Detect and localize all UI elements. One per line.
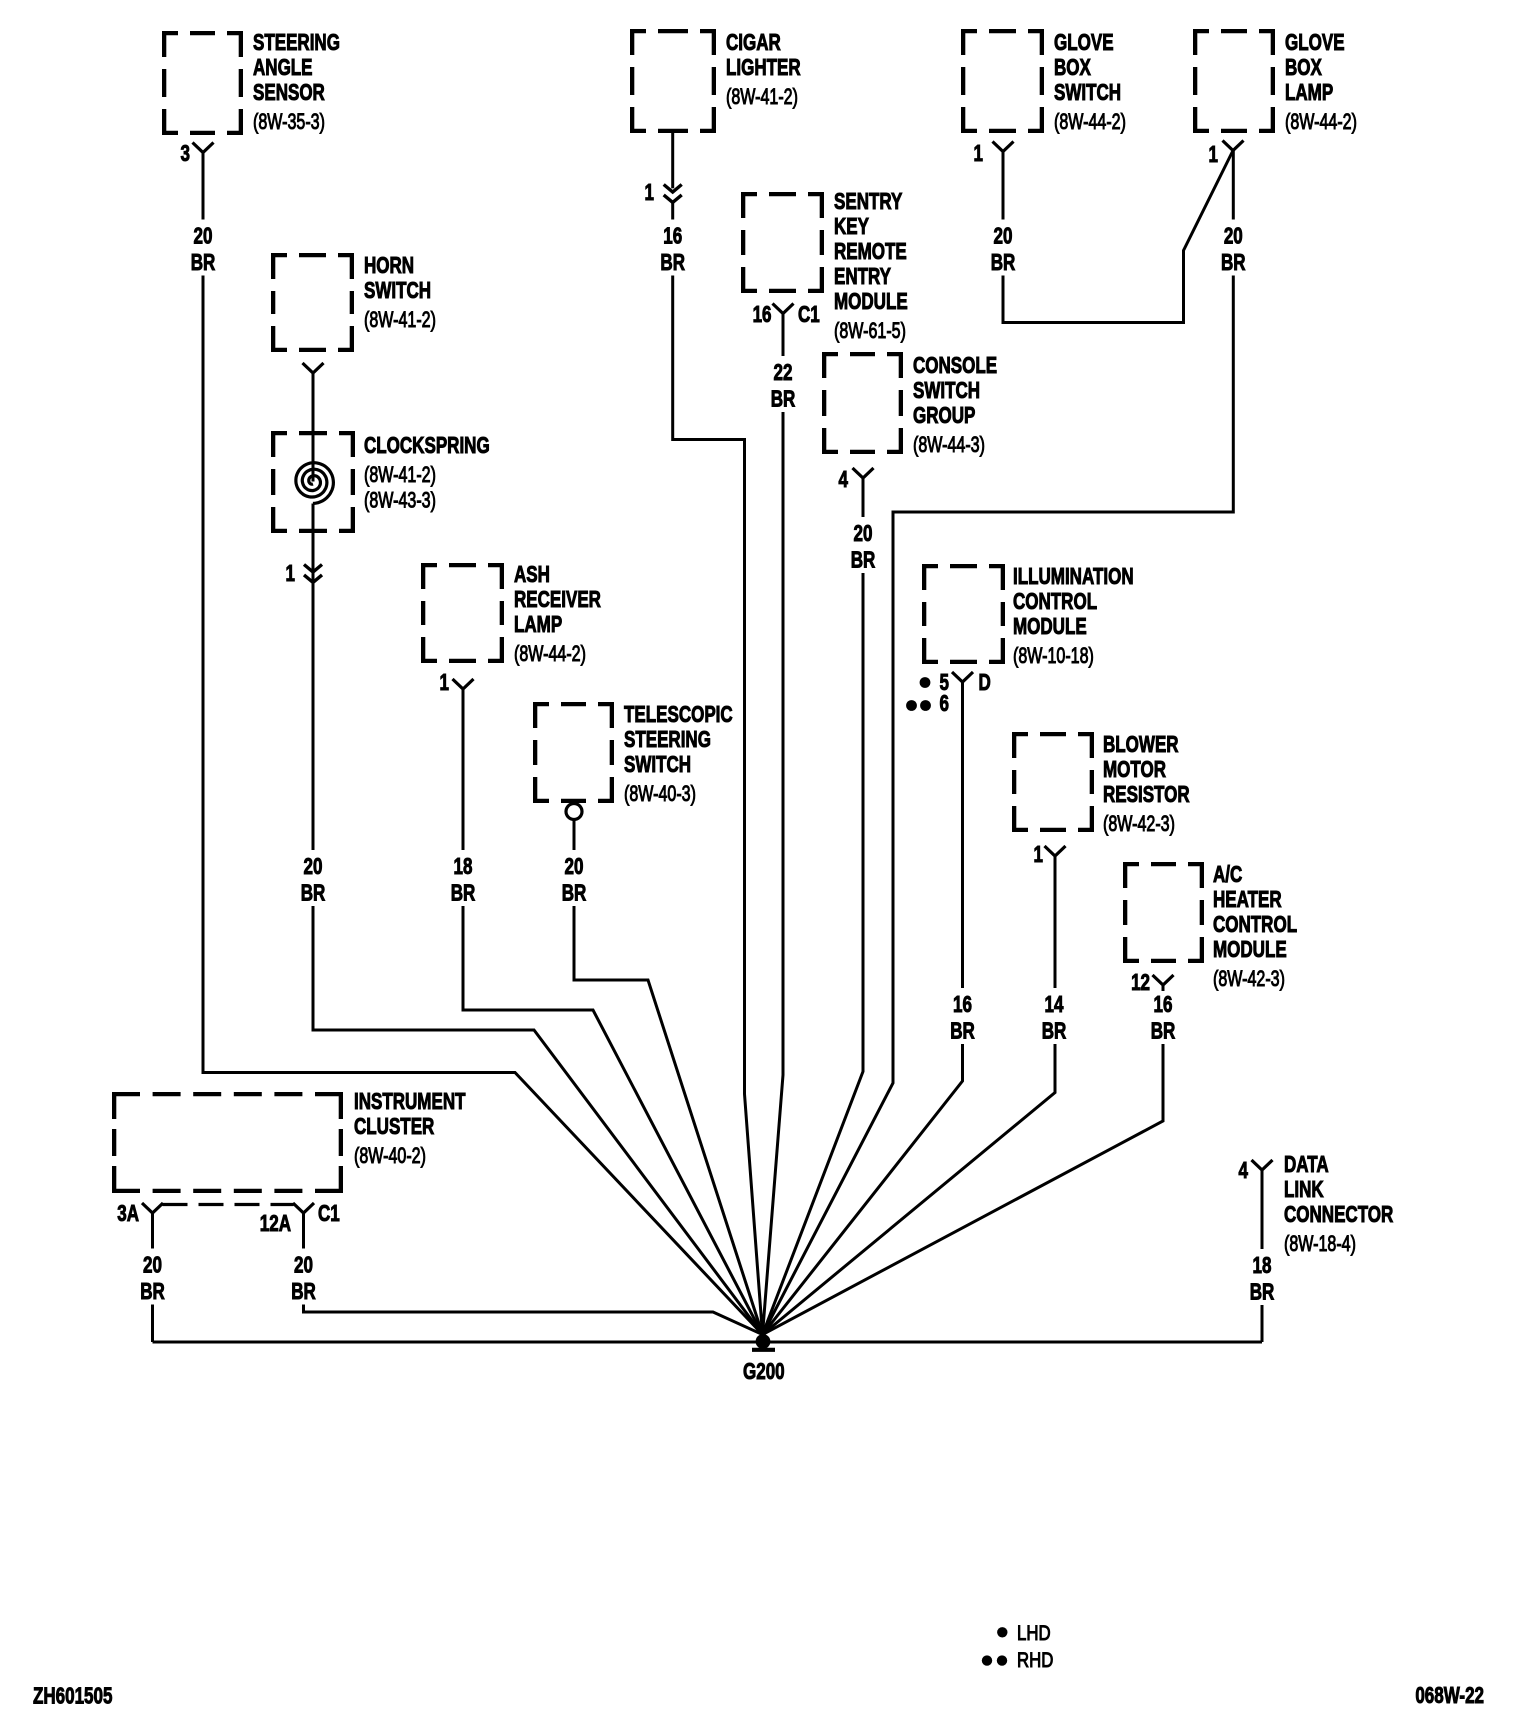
svg-text:16: 16 [753,303,772,328]
wire: telescopic steering switch to G200 splice [574,820,763,1335]
svg-text:ANGLE: ANGLE [253,55,313,80]
svg-text:BR: BR [1042,1019,1067,1044]
sheet number ZH601505 [33,1684,112,1709]
ground G200 splice dot and symbol [752,1334,775,1350]
svg-text:A/C: A/C [1213,862,1243,887]
label 20 BR (console switch group wire) [845,517,881,573]
svg-text:(8W-61-5): (8W-61-5) [834,320,906,344]
svg-text:CLOCKSPRING: CLOCKSPRING [364,433,490,458]
pin 1 connector (glove box switch) [974,142,1014,167]
label: DATA LINK CONNECTOR [1284,1152,1394,1256]
svg-text:LHD: LHD [1017,1622,1051,1645]
label 18 BR (data link connector wire) [1244,1249,1280,1305]
wire: horn switch to clockspring (upper) [312,373,315,482]
wire: ash receiver lamp pin 1 to G200 splice [463,689,763,1335]
connector box: GLOVE BOX LAMP [1193,29,1357,135]
svg-text:(8W-41-2): (8W-41-2) [364,464,436,488]
svg-text:16: 16 [1154,993,1173,1018]
svg-text:3A: 3A [117,1202,139,1227]
svg-text:4: 4 [839,468,849,493]
svg-text:RECEIVER: RECEIVER [514,587,601,612]
svg-text:LINK: LINK [1284,1177,1324,1202]
svg-text:22: 22 [774,361,793,386]
svg-text:BOX: BOX [1285,55,1322,80]
wire: console switch group pin 4 to G200 splice [763,478,864,1335]
connector box: SENTRY KEY REMOTE ENTRY MODULE [741,189,908,343]
telescopic steering switch terminal circle [566,804,582,820]
svg-text:G200: G200 [743,1360,785,1385]
svg-text:BR: BR [771,387,796,412]
legend: RHD marker dots [982,1655,1007,1665]
svg-text:3: 3 [181,142,190,167]
svg-text:HEATER: HEATER [1213,887,1282,912]
svg-text:TELESCOPIC: TELESCOPIC [624,702,733,727]
pin 3A connector (instrument cluster) [117,1202,163,1227]
svg-text:STEERING: STEERING [624,727,711,752]
wire: clockspring pin 1 to G200 splice [313,504,763,1335]
svg-text:18: 18 [454,855,473,880]
svg-text:SENTRY: SENTRY [834,189,903,214]
svg-text:(8W-42-3): (8W-42-3) [1213,968,1285,992]
label 20 BR (cluster 12A wire) [286,1249,322,1305]
svg-text:GLOVE: GLOVE [1054,30,1114,55]
pin 16 C1 connector (sentry key module) [753,303,820,328]
svg-text:DATA: DATA [1284,1152,1329,1177]
svg-text:SWITCH: SWITCH [364,278,431,303]
connector box: CIGAR LIGHTER [630,29,801,133]
svg-text:(8W-18-4): (8W-18-4) [1284,1233,1356,1257]
svg-text:STEERING: STEERING [253,30,340,55]
svg-text:LAMP: LAMP [1285,80,1333,105]
svg-text:(8W-44-2): (8W-44-2) [514,643,586,667]
svg-text:(8W-35-3): (8W-35-3) [253,111,325,135]
svg-text:(8W-44-3): (8W-44-3) [913,434,985,458]
svg-text:16: 16 [663,224,682,249]
svg-text:INSTRUMENT: INSTRUMENT [354,1089,466,1114]
svg-text:CONSOLE: CONSOLE [913,353,997,378]
svg-text:RHD: RHD [1017,1649,1053,1672]
svg-text:SENSOR: SENSOR [253,80,325,105]
label 20 BR (steering angle sensor wire) [185,220,221,276]
connector box: ASH RECEIVER LAMP [421,562,601,666]
svg-text:BOX: BOX [1054,55,1091,80]
svg-text:BR: BR [991,251,1016,276]
wire: illumination control module pin 5/6 to G200 splice [763,682,963,1335]
svg-text:SWITCH: SWITCH [624,752,691,777]
svg-text:BR: BR [451,881,476,906]
svg-text:ZH601505: ZH601505 [33,1684,112,1709]
svg-text:(8W-41-2): (8W-41-2) [364,309,436,333]
pin 12 connector (a/c heater control module) [1131,971,1173,996]
wire: glove box lamp pin 1 to G200 splice [763,151,1234,1335]
svg-text:12A: 12A [260,1212,292,1237]
svg-text:MOTOR: MOTOR [1103,757,1166,782]
svg-text:LIGHTER: LIGHTER [726,55,801,80]
connector box: HORN SWITCH [271,253,436,352]
legend text RHD [1017,1649,1053,1672]
svg-text:1: 1 [645,181,654,206]
svg-text:6: 6 [940,692,949,717]
label 16 BR (illumination module wire) [945,988,981,1044]
svg-text:BR: BR [1250,1280,1275,1305]
svg-text:20: 20 [854,522,873,547]
svg-text:4: 4 [1239,1159,1249,1184]
svg-text:BR: BR [851,548,876,573]
svg-text:CONNECTOR: CONNECTOR [1284,1202,1394,1227]
wire: glove box switch pin 1 to glove box lamp pin 1 [1003,151,1233,323]
wire: blower motor resistor pin 1 to G200 splice [763,856,1056,1335]
connector box: CONSOLE SWITCH GROUP [822,352,997,458]
svg-text:20: 20 [1224,224,1243,249]
connector box: CLOCKSPRING [271,431,490,533]
connector box: ILLUMINATION CONTROL MODULE [922,564,1134,669]
svg-text:BR: BR [140,1280,165,1305]
svg-text:ILLUMINATION: ILLUMINATION [1013,564,1134,589]
svg-text:BR: BR [1221,251,1246,276]
svg-text:D: D [979,671,991,696]
svg-text:ASH: ASH [514,562,550,587]
label 22 BR (sentry key module wire) [765,356,801,412]
wire: instrument cluster pin 12A C1 to G200 splice [304,1213,763,1335]
wire: ground bus to G200 [153,1341,1263,1344]
svg-text:20: 20 [194,224,213,249]
svg-text:SWITCH: SWITCH [1054,80,1121,105]
label 20 BR (cluster 3A wire) [135,1249,171,1305]
svg-text:20: 20 [565,855,584,880]
svg-text:14: 14 [1045,993,1065,1018]
connector box: A/C HEATER CONTROL MODULE [1123,862,1297,992]
connector strip between cluster pins [163,1203,294,1206]
svg-text:BR: BR [291,1280,316,1305]
svg-text:BR: BR [950,1019,975,1044]
svg-text:MODULE: MODULE [834,289,908,314]
label 18 BR (ash receiver lamp wire) [445,850,481,906]
svg-text:LAMP: LAMP [514,612,562,637]
pin 4 connector (console switch group) [839,468,874,493]
svg-text:BR: BR [660,251,685,276]
svg-text:(8W-42-3): (8W-42-3) [1103,813,1175,837]
svg-text:BR: BR [562,881,587,906]
svg-text:CONTROL: CONTROL [1013,589,1097,614]
svg-text:CLUSTER: CLUSTER [354,1114,435,1139]
connector box: STEERING ANGLE SENSOR [162,30,340,135]
pin 1 connector (glove box lamp) [1209,141,1244,168]
svg-text:(8W-40-3): (8W-40-3) [624,783,696,807]
in-line connector 1 (cigar lighter) [645,181,682,206]
svg-text:1: 1 [1209,143,1218,168]
svg-text:MODULE: MODULE [1013,614,1087,639]
svg-text:C1: C1 [318,1202,340,1227]
pin 1 connector (blower motor resistor) [1034,843,1066,868]
svg-text:C1: C1 [798,303,820,328]
connector box: GLOVE BOX SWITCH [961,29,1126,135]
svg-text:20: 20 [304,855,323,880]
pin 1 connector (ash receiver lamp) [440,671,474,696]
svg-text:1: 1 [286,562,295,587]
svg-text:(8W-41-2): (8W-41-2) [726,86,798,110]
svg-text:RESISTOR: RESISTOR [1103,782,1190,807]
svg-text:1: 1 [974,142,983,167]
label 16 BR (cigar lighter wire) [655,220,691,276]
svg-text:068W-22: 068W-22 [1415,1684,1484,1709]
svg-text:GLOVE: GLOVE [1285,30,1345,55]
svg-text:(8W-44-2): (8W-44-2) [1285,111,1357,135]
wire: instrument cluster pin 3A to ground bus [151,1213,154,1342]
connector box: INSTRUMENT CLUSTER [112,1089,466,1193]
connector box: BLOWER MOTOR RESISTOR [1012,732,1190,837]
svg-text:12: 12 [1131,971,1150,996]
svg-text:MODULE: MODULE [1213,937,1287,962]
pin 4 connector (data link connector) [1239,1159,1273,1184]
svg-text:BLOWER: BLOWER [1103,732,1179,757]
svg-text:GROUP: GROUP [913,403,975,428]
svg-text:BR: BR [301,881,326,906]
svg-text:1: 1 [440,671,449,696]
svg-text:REMOTE: REMOTE [834,239,907,264]
pin 5 D connector (illumination control module) [920,671,991,696]
clockspring spiral symbol [296,463,334,504]
wire: cigar lighter pin 1 to G200 splice [673,133,763,1335]
connector box: TELESCOPIC STEERING SWITCH [533,702,733,807]
label G200 [743,1360,785,1385]
svg-text:CONTROL: CONTROL [1213,912,1297,937]
svg-text:(8W-10-18): (8W-10-18) [1013,645,1094,669]
svg-text:HORN: HORN [364,253,414,278]
label 14 BR (blower motor resistor wire) [1036,988,1072,1044]
label 20 BR (telescopic steering wire) [556,850,592,906]
svg-text:KEY: KEY [834,214,869,239]
svg-text:BR: BR [1151,1019,1176,1044]
pin 3 connector (steering angle sensor) [181,142,214,167]
svg-text:SWITCH: SWITCH [913,378,980,403]
svg-text:20: 20 [994,224,1013,249]
svg-text:16: 16 [953,993,972,1018]
in-line connector 1 (clockspring) [286,562,322,587]
pin connector (horn switch output) [303,363,324,373]
pin 6 marker (illumination control module) [906,692,949,717]
svg-text:ENTRY: ENTRY [834,264,891,289]
wire: data link connector pin 4 to ground bus [1261,1170,1264,1342]
label 16 BR (a/c heater module wire) [1145,991,1181,1044]
svg-text:(8W-40-2): (8W-40-2) [354,1145,426,1169]
svg-text:1: 1 [1034,843,1043,868]
wire: steering angle sensor pin 3 to G200 splice [203,153,763,1335]
svg-text:20: 20 [294,1253,313,1278]
pin 12A C1 connector (instrument cluster) [260,1202,340,1237]
label 20 BR (glove box lamp wire) [1215,220,1251,276]
legend: LHD marker dot [997,1627,1007,1637]
svg-text:20: 20 [143,1253,162,1278]
svg-text:(8W-44-2): (8W-44-2) [1054,111,1126,135]
wire: a/c heater control module pin 12 to G200 splice [763,985,1164,1335]
sheet number 068W-22 [1415,1684,1484,1709]
svg-text:(8W-43-3): (8W-43-3) [364,489,436,513]
legend text LHD [1017,1622,1051,1645]
svg-text:BR: BR [191,251,216,276]
label 20 BR (clockspring wire) [295,850,331,906]
svg-text:CIGAR: CIGAR [726,30,781,55]
wire: sentry key remote entry module pin 16 to G200 splice [763,314,784,1335]
label 20 BR (glove box switch wire) [985,220,1021,276]
svg-text:18: 18 [1253,1254,1272,1279]
